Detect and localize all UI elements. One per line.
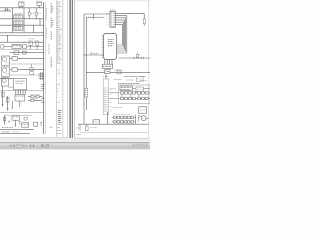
rotated word column c xyxy=(50,32,52,41)
switch row wire a xyxy=(4,45,12,47)
toolbar right buttons xyxy=(133,144,148,148)
mark right xyxy=(40,123,42,127)
inline component G label xyxy=(115,69,124,71)
right page right edge xyxy=(148,1,150,138)
LB1 lead xyxy=(15,120,17,127)
label MAIN xyxy=(9,86,14,88)
left stub bottom xyxy=(79,124,81,130)
wire K1 vertical right xyxy=(23,8,25,19)
diode D1 lead2 xyxy=(28,15,30,19)
right page paper xyxy=(75,0,149,139)
node FT xyxy=(38,6,41,9)
wire K2 vertical right xyxy=(23,19,25,25)
diode D2 lead xyxy=(35,8,37,12)
toolbar page field xyxy=(16,144,21,147)
bottom chain labels xyxy=(116,113,130,115)
note text row a xyxy=(124,75,136,77)
bus drop 4 xyxy=(124,20,126,49)
wire right cluster row2 xyxy=(28,100,43,102)
junction label xyxy=(93,53,99,55)
CB1 pin 4 xyxy=(22,90,24,95)
CN-A lead xyxy=(19,101,21,107)
diode D2 xyxy=(35,12,37,15)
inline component G xyxy=(117,71,121,74)
gutter shadow line 3 xyxy=(73,0,75,138)
motor M1 marks xyxy=(6,62,9,64)
component A label xyxy=(29,40,33,42)
control unit U1 xyxy=(104,33,117,59)
legend line 1 xyxy=(0,129,34,131)
labeled box LB1 xyxy=(12,115,20,120)
control box CB1 xyxy=(14,79,27,90)
relay K1 contact a xyxy=(15,16,17,19)
wire T1 lead b xyxy=(21,6,23,8)
wire I right xyxy=(143,88,149,90)
tick rb b xyxy=(140,57,142,59)
bus wire L1 xyxy=(0,7,44,9)
left rail wire 2 xyxy=(85,17,87,110)
motor M3 circle xyxy=(2,79,6,83)
chain vertical link a xyxy=(121,94,123,97)
legend table right border xyxy=(62,0,64,137)
junction vertical a xyxy=(134,115,136,125)
U1 bottom pin c2 xyxy=(109,59,111,64)
label near L1 xyxy=(6,9,11,11)
node on L1 a xyxy=(19,7,20,8)
relay K3 box xyxy=(14,26,23,30)
wire M2 out xyxy=(10,68,12,70)
fuse FT label xyxy=(36,0,42,2)
relay K2 contact a xyxy=(15,22,17,25)
note header row xyxy=(118,82,140,84)
stub to U1 pin c xyxy=(117,46,124,48)
tick rb a xyxy=(133,57,135,59)
bus wire L11 xyxy=(0,90,44,92)
fuse FT lead xyxy=(38,5,40,7)
switch S1 box xyxy=(12,44,21,48)
bus wire L4 xyxy=(0,32,44,34)
connector CN-A xyxy=(15,94,25,101)
bus wire L1b xyxy=(0,10,11,12)
component H label xyxy=(137,52,139,54)
relay K1 label a xyxy=(15,13,18,15)
wire mid row xyxy=(10,52,44,54)
label row2 xyxy=(30,98,38,100)
gutter shadow line 1 xyxy=(69,0,71,138)
legend line 2 xyxy=(0,133,30,135)
rotated word column g xyxy=(48,44,50,54)
small component B xyxy=(35,42,38,45)
node on M2 row xyxy=(25,68,28,71)
node jr a xyxy=(84,55,85,56)
wire K3 vertical left xyxy=(11,25,13,33)
rotated word column f xyxy=(50,57,52,68)
motor M1 circle xyxy=(2,57,6,61)
toolbar body lower xyxy=(0,146,150,149)
wire K3 vertical right xyxy=(23,25,25,33)
fuse F1 stub xyxy=(143,24,145,26)
connector CN1 xyxy=(110,11,115,27)
protector P2 xyxy=(12,68,18,71)
legend line label 2b xyxy=(13,131,20,133)
labeled box LB2 xyxy=(22,123,29,128)
diode D2 lead2 xyxy=(35,15,37,19)
right page top edge xyxy=(75,0,150,2)
U1 text block xyxy=(108,40,114,46)
bus drop 3 xyxy=(125,18,127,51)
stub to U1 pin b xyxy=(117,44,123,46)
row label upper left xyxy=(5,114,11,116)
wire U3 left xyxy=(86,71,105,73)
CB1 pin 2 xyxy=(17,90,19,95)
node jv a1 xyxy=(134,116,137,119)
wire CN1 out 3 xyxy=(115,17,126,19)
node on L5 xyxy=(7,35,8,36)
legend table left border xyxy=(56,0,58,137)
node jv b1 xyxy=(137,116,140,119)
schematic right border inner xyxy=(44,2,46,134)
motor M3 box xyxy=(1,78,8,86)
stub to U1 pin f xyxy=(117,52,127,54)
toolbar prev-prev button xyxy=(10,145,11,147)
right bus wire xyxy=(119,57,150,59)
right page frame bottom xyxy=(80,131,149,133)
component E xyxy=(30,68,33,71)
switch S2 box xyxy=(23,45,27,48)
title block lower rows xyxy=(57,125,61,134)
title block rows xyxy=(57,110,63,123)
inline comp row1 xyxy=(31,95,34,97)
wire CN1 out 5 xyxy=(115,21,123,23)
wire K1 vertical left xyxy=(11,8,13,19)
chain vertical link b xyxy=(130,94,132,97)
toolbar body upper xyxy=(0,143,150,146)
CN1 pin ticks xyxy=(113,13,115,26)
toolbar page count text xyxy=(23,145,26,147)
wire stub xyxy=(6,8,8,11)
resistor chain row2 wire xyxy=(120,97,150,99)
motor M4 mark xyxy=(143,117,145,119)
junction cluster a xyxy=(41,85,45,89)
bus wire L5 xyxy=(0,35,44,37)
connector pin labels right xyxy=(110,90,112,111)
status strip xyxy=(0,149,150,150)
wire row M2 xyxy=(18,68,44,70)
component H xyxy=(136,54,139,57)
note text scatter c xyxy=(140,79,147,81)
rotated word column d xyxy=(52,6,54,12)
component F xyxy=(30,72,33,75)
node v3 xyxy=(32,24,35,27)
motor box MB xyxy=(139,107,147,113)
U1 bottom pin d2 xyxy=(111,59,113,64)
wire CN1 out 6 xyxy=(115,23,122,25)
stub to frame row1 xyxy=(109,92,119,94)
area below pages xyxy=(0,138,150,150)
wire CN1 out 1 xyxy=(115,12,144,14)
tick rb c xyxy=(143,57,145,59)
bus wire L9 xyxy=(10,74,43,76)
left rail wire 1 xyxy=(83,14,85,124)
diode D1 label xyxy=(31,12,34,14)
component row label c xyxy=(29,38,36,40)
motor M1 box xyxy=(1,56,9,65)
stub to frame row2 xyxy=(109,97,119,99)
relay K3 contact a xyxy=(15,27,17,30)
rotated word column e xyxy=(52,20,54,26)
module U2 text xyxy=(103,65,111,67)
stub to U1 pin e xyxy=(117,50,126,52)
component E lead up xyxy=(31,64,33,68)
wire K2 vertical left xyxy=(11,19,13,25)
inline comp row1 b xyxy=(36,95,39,97)
switch S0 box xyxy=(1,45,4,48)
node L10 a xyxy=(10,78,11,79)
note box top right xyxy=(137,77,144,82)
stub v1 xyxy=(4,8,6,11)
wire drop arrow xyxy=(93,14,95,18)
node v1 xyxy=(4,6,7,9)
rotated note text a xyxy=(46,8,48,20)
bottom chain rowA wire xyxy=(112,116,135,118)
node out1 xyxy=(129,13,130,14)
bottom chain rowB bodies xyxy=(114,121,134,123)
fuse FT xyxy=(37,2,41,5)
inline component D xyxy=(23,51,27,54)
connector column box xyxy=(103,79,109,115)
marks under modules xyxy=(103,75,108,77)
toolbar tool button xyxy=(46,144,48,147)
U1 bottom pin a xyxy=(104,59,106,64)
inline comp row2 xyxy=(31,99,34,101)
node v2 xyxy=(39,17,42,20)
wire right cluster row1 xyxy=(28,96,43,98)
toolbar next-next button xyxy=(33,145,34,147)
CN1 top label xyxy=(110,9,116,11)
node on L6 xyxy=(24,42,25,43)
relay K1 box xyxy=(14,15,23,19)
bus wire L7 xyxy=(0,49,44,51)
chain vertical link c xyxy=(138,94,140,97)
switch tick xyxy=(90,52,92,55)
CB1 pin 3 xyxy=(20,90,22,95)
bus drop 5 xyxy=(123,22,125,47)
wire drop from L5 xyxy=(7,36,9,43)
node on M1 row xyxy=(18,57,21,60)
transformer T1 label xyxy=(19,1,25,3)
inline fuse on rail xyxy=(85,89,88,98)
page background xyxy=(0,0,150,150)
tick marks xyxy=(8,121,10,123)
node rb xyxy=(137,58,138,59)
wire KR1 to I xyxy=(133,88,137,90)
wire M1 out xyxy=(10,57,12,59)
bus wire L3 xyxy=(0,24,44,26)
module U3 xyxy=(105,69,110,73)
node R2 b xyxy=(89,16,92,19)
toolbar zoom icon xyxy=(41,145,43,147)
bus wire L2 xyxy=(0,18,44,20)
component block frame xyxy=(119,85,150,104)
motor M2 circle xyxy=(2,68,6,72)
bus drop 2 xyxy=(126,16,128,53)
row label upper xyxy=(21,114,32,116)
junction vertical b xyxy=(138,116,140,122)
sensor body xyxy=(3,117,5,121)
fuse F1 xyxy=(143,19,145,24)
diode D2 label xyxy=(38,12,41,14)
legend line label 2 xyxy=(2,131,10,133)
component B label xyxy=(35,40,39,42)
page number note xyxy=(50,126,53,128)
CB1 pin 5 xyxy=(24,90,26,95)
resistor chain row2 bodies xyxy=(121,97,149,100)
module U2 xyxy=(102,64,112,68)
node jv a2 xyxy=(134,120,137,123)
left page bottom edge xyxy=(0,137,68,139)
legend table rows middle xyxy=(57,65,63,103)
rotated word column b xyxy=(50,18,52,28)
wire chain 3 xyxy=(11,101,13,109)
rotated word column a xyxy=(50,3,52,14)
drain component below line xyxy=(85,126,88,131)
node jr b xyxy=(86,55,87,56)
toolbar bottom border xyxy=(0,147,150,149)
wire chain 2 xyxy=(7,96,9,109)
transformer T1 xyxy=(19,3,24,6)
motor M2 box xyxy=(1,67,9,76)
connector column pins xyxy=(104,88,108,111)
small component A xyxy=(29,42,32,45)
connector column link xyxy=(105,74,107,80)
wire left chain xyxy=(2,86,4,104)
drain component lead xyxy=(86,124,88,126)
gutter shadow line 2 xyxy=(71,0,73,138)
U1 left pin hatch xyxy=(102,36,104,58)
arrow terminal b xyxy=(7,109,9,112)
wire row M1 xyxy=(18,57,44,59)
rotated note text b xyxy=(46,28,48,38)
bottom labeled box xyxy=(93,120,100,124)
wire CN1 out 4 xyxy=(115,19,124,21)
component A lead xyxy=(30,45,32,49)
component B lead xyxy=(36,45,38,49)
small box row upper xyxy=(24,117,27,120)
motor M4 lead xyxy=(146,117,149,119)
motor M1 label xyxy=(12,56,17,58)
bus wire L10 xyxy=(0,77,14,79)
relay K2 contact b xyxy=(18,22,20,25)
stub v2 xyxy=(39,19,41,25)
left page paper xyxy=(0,0,68,138)
diode D1 lead xyxy=(28,8,30,12)
node R2 a xyxy=(87,16,90,19)
bus wire L12 xyxy=(0,112,44,114)
switch row wire b xyxy=(21,45,23,47)
diode D1 xyxy=(28,12,30,15)
motor M2 marks xyxy=(6,73,9,75)
motor M4 link a xyxy=(139,116,142,117)
component I xyxy=(136,87,143,92)
right page bottom edge xyxy=(75,137,149,139)
relay K2 box xyxy=(14,21,23,25)
stub to U1 pin d xyxy=(117,48,125,50)
motor M4 circle xyxy=(141,116,146,121)
inline component C xyxy=(14,51,19,54)
resistor R2 xyxy=(6,97,9,102)
bottom wire row xyxy=(78,123,149,125)
toolbar next button xyxy=(30,145,31,147)
wire T1 lead a xyxy=(19,6,21,8)
switch row wire c xyxy=(27,45,44,47)
junction cluster b xyxy=(41,99,45,103)
node on L2 b xyxy=(24,18,25,19)
node on L1 b xyxy=(22,7,23,8)
wire junction row xyxy=(84,54,104,56)
note text scatter b xyxy=(126,79,134,81)
label row1 xyxy=(30,94,40,96)
sensor lead xyxy=(4,115,6,125)
wire corner down xyxy=(143,13,145,19)
toolbar top border xyxy=(0,142,150,144)
block label row xyxy=(113,107,122,109)
bus wire L6 xyxy=(0,41,44,43)
left stub label xyxy=(77,127,80,129)
thermostat symbol xyxy=(19,122,21,125)
small box LB3 xyxy=(34,122,38,126)
relay K3 contact b xyxy=(18,27,20,30)
left page right edge xyxy=(67,0,69,138)
connector column label xyxy=(110,88,116,90)
bottom note text xyxy=(90,126,97,128)
module U3 text xyxy=(106,70,110,72)
schematic right border xyxy=(43,2,45,134)
wire stub R2 xyxy=(86,16,104,18)
note text row b xyxy=(140,75,147,77)
stub v3 xyxy=(33,25,35,33)
resistor R1 xyxy=(2,92,5,97)
connector CN1 left labels xyxy=(106,13,109,25)
bus wire L8 xyxy=(10,63,43,65)
bottom chain rowA bodies xyxy=(114,116,134,118)
node on L2 a xyxy=(12,18,13,19)
note text scatter a xyxy=(114,79,122,81)
relay K1 contact b xyxy=(18,16,20,19)
toolbar prev button xyxy=(13,145,14,147)
bottom vertical link xyxy=(107,112,109,124)
legend table rows upper xyxy=(57,1,63,63)
wire U3 right xyxy=(110,71,150,73)
bottom chain rowB wire xyxy=(112,121,135,123)
resistor chain row1 bodies xyxy=(121,92,149,95)
U1 bottom pin b xyxy=(106,59,108,64)
relay K1 label b xyxy=(19,13,22,15)
bus drop 6 xyxy=(122,24,124,45)
legend line label 1 xyxy=(2,127,14,129)
control box CB1 text xyxy=(16,80,25,82)
protector P1 xyxy=(12,57,18,60)
top bus wire R1 xyxy=(84,13,110,15)
relay KR1 xyxy=(120,86,133,90)
right page bottom note xyxy=(77,134,81,136)
junction cluster right xyxy=(39,72,44,80)
wire CN1 out 2 xyxy=(115,15,127,17)
CB1 pin 1 xyxy=(15,90,17,95)
arrow terminal a xyxy=(2,104,4,107)
resistor chain row1 wire xyxy=(120,92,150,94)
